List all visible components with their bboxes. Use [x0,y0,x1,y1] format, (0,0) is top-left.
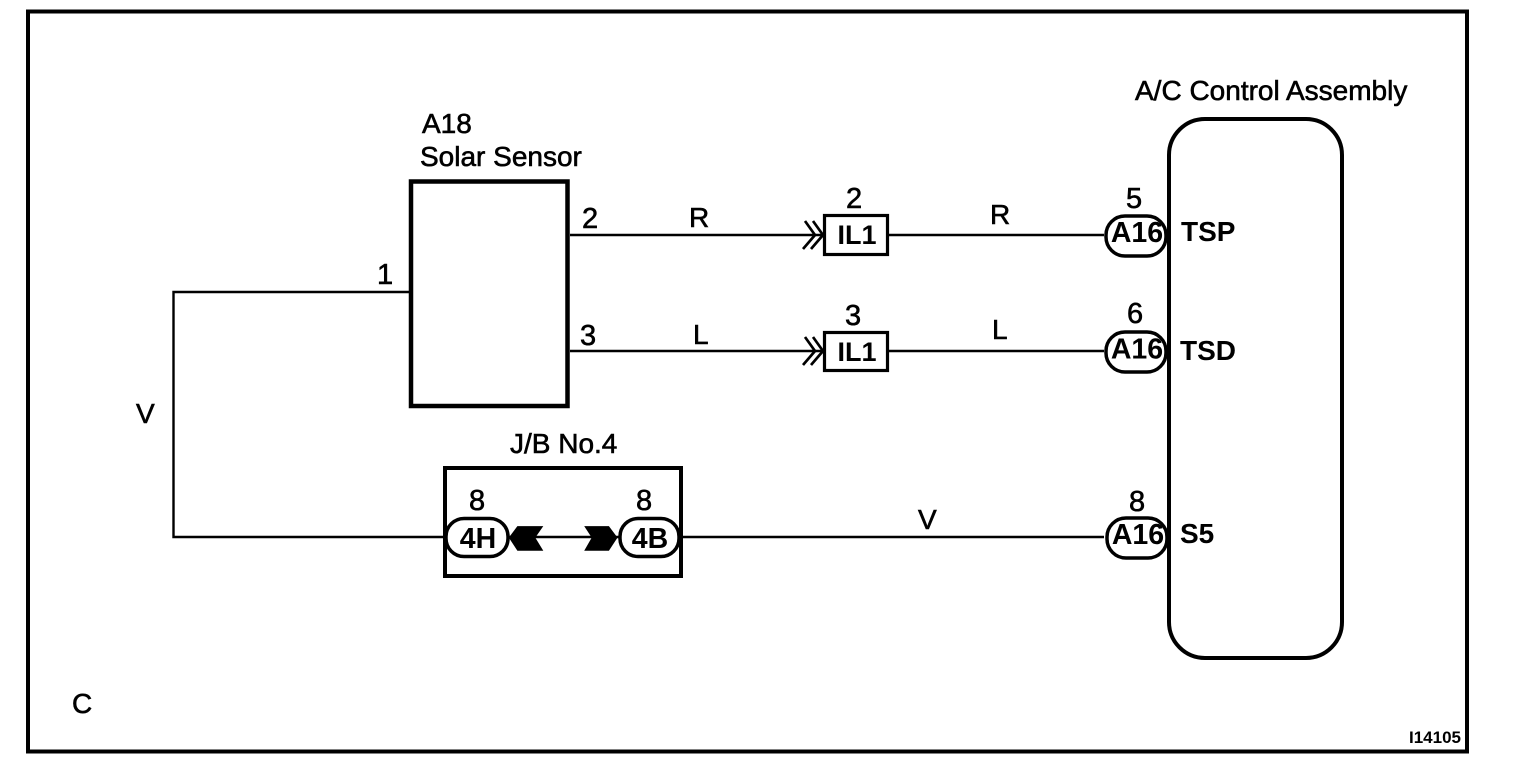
svg-text:R: R [689,202,709,233]
svg-text:8: 8 [1129,486,1145,518]
svg-text:3: 3 [845,300,861,332]
svg-text:A/C Control Assembly: A/C Control Assembly [1135,75,1407,106]
svg-text:4B: 4B [632,523,668,555]
svg-text:3: 3 [580,320,596,352]
svg-text:R: R [990,199,1010,230]
svg-text:V: V [918,504,937,535]
svg-text:IL1: IL1 [837,337,876,367]
svg-text:8: 8 [636,485,652,517]
svg-text:L: L [992,314,1008,345]
svg-text:2: 2 [582,203,598,235]
svg-text:4H: 4H [460,523,496,555]
svg-text:8: 8 [469,485,485,517]
svg-text:A18: A18 [422,108,472,139]
svg-text:TSP: TSP [1181,216,1235,247]
svg-text:IL1: IL1 [837,220,876,250]
svg-text:I14105: I14105 [1409,728,1461,747]
svg-text:A16: A16 [1111,334,1163,366]
svg-text:TSD: TSD [1180,335,1236,366]
svg-text:A16: A16 [1112,519,1164,551]
svg-text:2: 2 [846,183,862,215]
svg-text:J/B No.4: J/B No.4 [510,428,617,459]
svg-text:6: 6 [1127,298,1143,330]
svg-text:L: L [693,319,709,350]
svg-text:A16: A16 [1111,217,1163,249]
svg-text:V: V [136,398,155,429]
svg-text:S5: S5 [1180,518,1214,549]
svg-text:5: 5 [1126,183,1142,215]
svg-text:1: 1 [377,259,393,291]
svg-text:Solar Sensor: Solar Sensor [420,141,582,172]
svg-text:C: C [72,688,92,719]
